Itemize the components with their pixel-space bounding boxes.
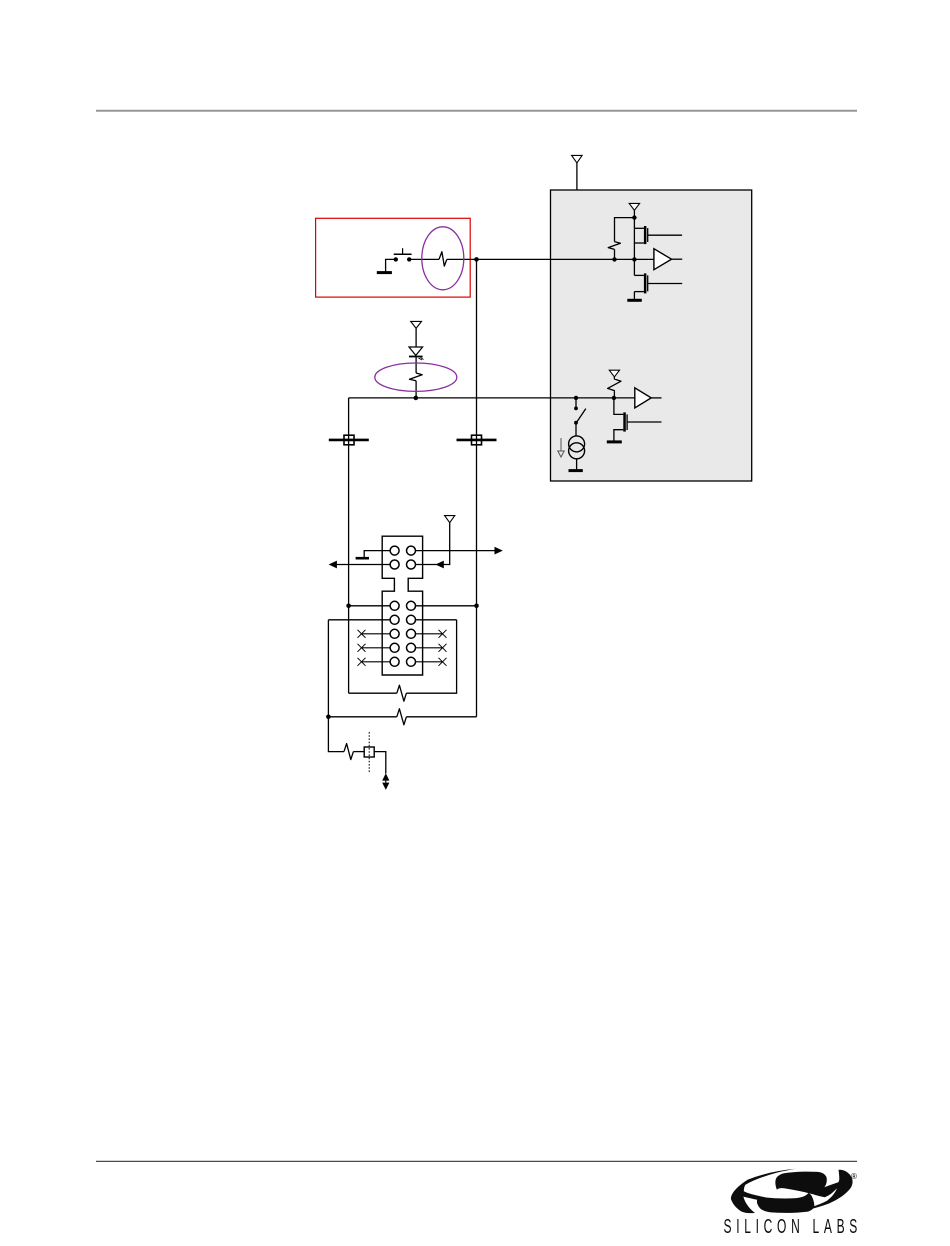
switch (weak pullup enable) — [574, 398, 586, 436]
current source I1 — [569, 436, 585, 469]
ground (I1) — [569, 469, 583, 472]
board connection symbol (line A) — [329, 435, 369, 445]
logo text SILICON LABS — [724, 1216, 858, 1238]
ground (J1 pin1) — [356, 557, 369, 560]
VDD symbol (lower cell) — [609, 370, 619, 377]
J1 pins — [390, 546, 415, 569]
resistor flash (outer loop) — [397, 709, 407, 725]
wire outer loop — [328, 620, 476, 717]
wire LED row to chip — [349, 397, 635, 399]
node A junction — [474, 257, 479, 262]
VDD symbol above chip — [572, 155, 583, 163]
VDD symbol (LED) — [411, 321, 422, 328]
wire switch to node A — [411, 258, 439, 260]
VDD symbol (J1) — [445, 516, 455, 523]
header J1/J2 outline — [382, 536, 422, 675]
node J2 pin1 left junction — [346, 604, 390, 609]
node lower input junction — [612, 396, 616, 400]
transistor Q2 (NMOS) — [634, 273, 682, 293]
wire J2 pin3 left — [328, 619, 390, 621]
chip block (grey) — [551, 190, 752, 481]
header rule — [96, 110, 857, 112]
ESD bidirectional arrows — [382, 773, 389, 790]
resistor flash (pullup) — [608, 242, 620, 250]
op-amp U1a (input buffer) — [654, 249, 682, 270]
wire J1 pin2 out right — [416, 550, 498, 552]
node B junction — [414, 396, 419, 401]
purple ellipse (switch) — [422, 227, 464, 290]
wire flash to pin symbol — [353, 751, 364, 753]
wire VDD down — [633, 210, 635, 217]
board connection symbol (line B) — [457, 435, 497, 445]
arrow out left — [329, 561, 337, 569]
red application box — [316, 218, 471, 297]
resistor flash (stub) — [344, 744, 353, 760]
wire to chip input — [447, 258, 654, 260]
wire pullup branch — [615, 218, 635, 242]
svg-text:®: ® — [851, 1172, 857, 1181]
wire J1 pin1 to ground — [364, 551, 390, 558]
ground (switch) — [377, 259, 396, 272]
wire line A down — [348, 398, 350, 693]
svg-text:SILICON LABS: SILICON LABS — [724, 1216, 858, 1238]
arrow into pin4 — [436, 561, 444, 569]
wire J2 pin4 right — [416, 619, 457, 621]
wire flash to input node — [614, 249, 616, 259]
transistor Q1 (PMOS) — [634, 226, 682, 244]
LED D1 — [409, 347, 424, 360]
ground (upper cell) — [627, 299, 642, 302]
VDD symbol (upper cell) — [629, 203, 639, 210]
wire VDD to LED — [415, 328, 417, 347]
node J2 pin2 right junction — [416, 604, 479, 609]
ground (Q3) — [607, 440, 622, 443]
wire inner loop — [349, 620, 457, 693]
wire J1 pin4 to VDD — [416, 523, 450, 565]
wire node A down (line B) — [476, 259, 478, 716]
registered trademark — [851, 1172, 857, 1181]
pushbutton switch S1 — [394, 248, 412, 261]
wire VDD to chip top — [576, 163, 578, 190]
wire J1 pin3 out left — [333, 564, 390, 566]
transistor Q3 (NMOS) — [614, 398, 662, 441]
resistor flash (switch ESD) — [439, 252, 447, 266]
wire flash to node — [613, 391, 615, 398]
arrow out right — [495, 547, 503, 555]
node VDD junction — [632, 215, 636, 219]
purple ellipse (LED) — [375, 363, 457, 391]
wire resistor to node B — [415, 381, 417, 398]
wire PMOS stack vertical — [633, 218, 635, 276]
wire pin symbol right and down — [374, 752, 386, 774]
node outer loop junction — [326, 715, 331, 720]
no-connect pins rows 3-5 — [358, 630, 447, 666]
arrow (current direction) — [558, 438, 564, 457]
wire LED to resistor — [415, 357, 417, 374]
resistor flash (inner loop) — [397, 685, 407, 701]
resistor flash (weak pullup) — [608, 377, 621, 392]
Silicon Labs logo swirl — [731, 1169, 853, 1213]
wire stub down — [328, 717, 344, 752]
node pin junction — [632, 257, 636, 261]
resistor flash (LED) — [409, 373, 422, 381]
node switch branch junction — [574, 396, 578, 400]
footer rule — [96, 1160, 857, 1162]
J2 pins — [390, 601, 415, 666]
node pullup junction — [612, 257, 616, 261]
op-amp U1b (input buffer) — [635, 388, 662, 408]
wire NMOS to ground — [633, 292, 635, 300]
pin boundary symbol — [364, 732, 374, 773]
